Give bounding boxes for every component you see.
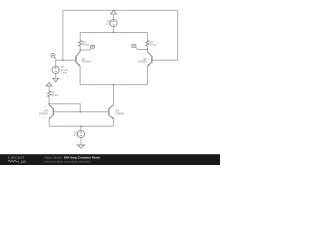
label R3: [51, 91, 58, 98]
wire Q1 emitter down: [79, 66, 81, 85]
svg-text:9 V: 9 V: [106, 22, 110, 26]
label R1: [82, 40, 89, 47]
probe node circle: [51, 53, 55, 57]
svg-text:2N3904: 2N3904: [39, 111, 49, 115]
svg-text:1 kHz: 1 kHz: [61, 71, 68, 74]
label Q3: [115, 109, 125, 116]
svg-text:20 kΩ: 20 kΩ: [82, 43, 89, 47]
resistor R3: [48, 91, 51, 97]
wire top rail: [63, 9, 178, 11]
wire Q1 collector flag: [80, 48, 91, 50]
footer bar: [0, 154, 220, 165]
wire V1 bottom lead: [113, 27, 115, 33]
label R2: [150, 40, 157, 47]
wire right rail: [152, 10, 178, 60]
power flag VEE down arrow: [53, 78, 59, 81]
voltage source V2: [52, 66, 59, 73]
wire Q3 collector up: [113, 85, 115, 105]
wire V3 top lead: [80, 126, 82, 130]
wire R1 top lead: [79, 32, 81, 40]
wire R2 top lead: [146, 32, 148, 40]
label Q2: [138, 57, 148, 64]
node flag out1: [90, 45, 94, 48]
label V2: [61, 66, 69, 74]
label V3: [73, 130, 77, 137]
label V1: [106, 19, 110, 26]
wire VCC stem to V1: [113, 14, 115, 20]
label Q1: [82, 57, 92, 64]
voltage source V3: [77, 130, 84, 137]
wire V2 top to Q1 base: [56, 60, 76, 66]
wire Q4 diode jog: [49, 104, 80, 112]
svg-text:2N3904: 2N3904: [115, 111, 125, 115]
junction dots: [48, 10, 148, 127]
wire R3 bottom lead: [48, 97, 50, 105]
ground: [77, 145, 84, 148]
svg-text:20 kΩ: 20 kΩ: [150, 43, 157, 47]
wire Q2 collector flag: [136, 48, 147, 50]
wire Q4 emitter down: [48, 119, 50, 126]
resistor R1: [79, 40, 82, 46]
svg-text:http://circuitlab.com/c/pq3vnk: http://circuitlab.com/c/pq3vnkweeb5: [45, 159, 91, 163]
wire R3 top lead: [48, 86, 50, 91]
svg-text:9 V: 9 V: [73, 133, 77, 137]
wire left rail: [62, 10, 64, 60]
wire mirror base bus: [54, 111, 109, 113]
label Q4: [39, 109, 49, 116]
svg-text:2N3904: 2N3904: [138, 60, 148, 64]
transistor Q3: [109, 105, 114, 119]
svg-text:LAB: LAB: [18, 160, 26, 164]
wire rail2 R1-R2: [80, 31, 147, 33]
transistor Q1: [76, 52, 80, 66]
wire V2 bottom lead: [55, 74, 57, 79]
node flag out2: [132, 44, 136, 47]
svg-text:2N3904: 2N3904: [82, 60, 92, 64]
voltage source V1: [110, 20, 117, 27]
svg-text:20 kΩ: 20 kΩ: [51, 93, 58, 97]
transistor Q2: [147, 52, 152, 66]
transistor Q4: [49, 105, 53, 119]
power flag VCC above R3: [46, 83, 52, 86]
wire V3 bottom lead: [80, 138, 82, 146]
logo CircuitLab: [8, 156, 26, 164]
resistor R2: [146, 40, 149, 46]
wire emitter rail: [80, 84, 147, 86]
wire probe stub: [55, 57, 56, 59]
wire R2 bottom to Q2 collector: [146, 46, 148, 52]
wire bottom rail: [49, 125, 114, 127]
wire Q2 emitter down: [146, 66, 148, 85]
wire R1 bottom to Q1 collector: [79, 46, 81, 52]
power flag VCC top: [111, 10, 117, 14]
wire Q3 emitter down: [113, 119, 115, 126]
